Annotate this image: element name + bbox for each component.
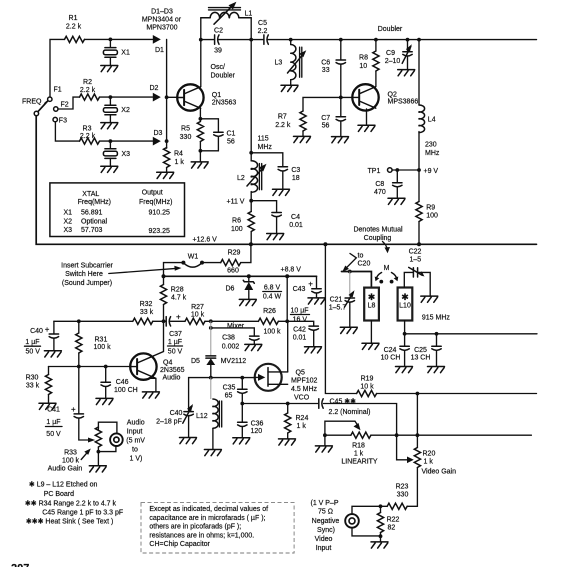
svg-text:+11 V: +11 V xyxy=(227,198,245,205)
wire +8.8V node xyxy=(162,274,317,278)
resistor R3 xyxy=(80,126,100,145)
capacitor C22 variable xyxy=(404,249,430,297)
svg-text:100 CH: 100 CH xyxy=(114,387,138,394)
svg-text:R30: R30 xyxy=(26,375,39,382)
label 115 MHz xyxy=(258,136,273,152)
capacitor C38 xyxy=(209,326,259,351)
svg-text:33 k: 33 k xyxy=(140,309,154,316)
diode D1 xyxy=(153,35,164,55)
arrow variable L2 xyxy=(247,164,267,186)
svg-text:C6: C6 xyxy=(321,60,330,67)
svg-text:1 V): 1 V) xyxy=(130,456,143,463)
note asterisk footnotes xyxy=(25,481,123,526)
svg-text:+8.8 V: +8.8 V xyxy=(281,267,302,274)
wire F2 to R2 xyxy=(58,97,80,109)
svg-text:L12: L12 xyxy=(196,413,208,420)
transistor Q4 xyxy=(130,353,184,381)
svg-text:1 k: 1 k xyxy=(175,159,185,166)
svg-text:50 V: 50 V xyxy=(168,349,183,356)
label to C20 xyxy=(342,253,370,272)
svg-text:Audio: Audio xyxy=(127,420,145,427)
svg-text:C37: C37 xyxy=(169,331,182,338)
svg-text:100 k: 100 k xyxy=(62,457,80,464)
svg-text:D6: D6 xyxy=(226,286,235,293)
svg-text:2.2 k: 2.2 k xyxy=(66,24,82,31)
svg-text:207: 207 xyxy=(11,563,29,567)
svg-text:R31: R31 xyxy=(95,336,108,343)
svg-text:0.01: 0.01 xyxy=(293,335,307,342)
resistor R7 xyxy=(275,97,341,136)
svg-text:L8: L8 xyxy=(368,303,376,310)
node F3 xyxy=(53,117,67,124)
svg-text:2.2 k: 2.2 k xyxy=(80,133,96,140)
resistor R23 xyxy=(387,484,417,510)
capacitor C35 xyxy=(223,378,247,404)
wire L4 column top xyxy=(418,40,420,105)
ground under L8 xyxy=(362,321,379,350)
ground under C21 xyxy=(340,327,357,333)
svg-text:R4: R4 xyxy=(174,151,183,158)
svg-text:10: 10 xyxy=(359,63,367,70)
svg-text:1 k: 1 k xyxy=(354,451,364,458)
svg-text:Freq(MHz): Freq(MHz) xyxy=(139,199,172,206)
arrow C41 to R33 wiper xyxy=(88,438,95,443)
resistor R8 xyxy=(359,40,379,87)
inductor L8 shielded xyxy=(364,288,379,321)
svg-text:R23: R23 xyxy=(396,484,409,491)
svg-text:39: 39 xyxy=(214,48,222,55)
capacitor C43 xyxy=(287,276,321,323)
svg-text:L1: L1 xyxy=(245,11,253,18)
svg-text:C42: C42 xyxy=(293,327,306,334)
svg-text:C22: C22 xyxy=(409,249,422,256)
svg-text:MV2112: MV2112 xyxy=(221,358,247,365)
svg-text:D2: D2 xyxy=(150,85,159,92)
transistor Q1 xyxy=(177,84,236,110)
svg-text:56: 56 xyxy=(227,139,235,146)
ground under C22 xyxy=(421,296,438,302)
label D1-D3 part numbers xyxy=(142,9,182,32)
transistor Q5 JFET xyxy=(255,364,318,402)
wire Q4 base node xyxy=(49,365,132,369)
svg-text:4.5 MHz: 4.5 MHz xyxy=(291,386,318,393)
svg-text:4.7 k: 4.7 k xyxy=(171,295,187,302)
svg-text:others are in picofarads (pF ): others are in picofarads (pF ); xyxy=(149,524,241,531)
svg-text:1 k: 1 k xyxy=(297,423,307,430)
svg-text:1–5.7: 1–5.7 xyxy=(329,305,347,312)
capacitor C42 xyxy=(287,321,318,346)
svg-text:X2: X2 xyxy=(64,218,73,225)
svg-text:915 MHz: 915 MHz xyxy=(422,315,451,322)
capacitor C3 xyxy=(251,153,300,189)
ground under R22 xyxy=(371,542,388,548)
svg-text:470: 470 xyxy=(374,189,386,196)
capacitor C41 xyxy=(46,367,89,441)
svg-text:100 k: 100 k xyxy=(94,344,112,351)
ground under C36 xyxy=(233,438,250,444)
svg-text:2.2 k: 2.2 k xyxy=(275,122,291,129)
svg-text:Q1: Q1 xyxy=(212,92,221,99)
svg-text:(5 mV: (5 mV xyxy=(126,438,145,445)
svg-text:Audio Gain: Audio Gain xyxy=(48,466,83,473)
wire R2 to D2 xyxy=(100,95,153,99)
ground under X3 xyxy=(101,166,118,172)
svg-text:C25: C25 xyxy=(414,347,427,354)
svg-text:✱: ✱ xyxy=(368,292,376,302)
resistor R19 xyxy=(357,376,377,397)
svg-text:R5: R5 xyxy=(181,126,190,133)
svg-text:16 V: 16 V xyxy=(293,317,308,324)
svg-text:Input: Input xyxy=(127,429,143,436)
svg-text:TP1: TP1 xyxy=(368,168,381,175)
svg-text:C46: C46 xyxy=(116,379,129,386)
svg-text:R6: R6 xyxy=(232,218,241,225)
node F2 xyxy=(54,102,69,112)
svg-text:Denotes Mutual: Denotes Mutual xyxy=(353,227,402,234)
wire Q4 collector xyxy=(154,321,164,356)
svg-text:R9: R9 xyxy=(426,205,435,212)
capacitor C2 xyxy=(201,28,251,55)
svg-text:+: + xyxy=(308,279,313,288)
svg-text:F2: F2 xyxy=(61,102,69,109)
ground under C25 xyxy=(428,367,445,373)
svg-text:Doubler: Doubler xyxy=(211,73,236,80)
wire F1 to R1 xyxy=(50,39,65,97)
wire rail down to R29 xyxy=(241,244,251,262)
svg-text:330: 330 xyxy=(397,492,409,499)
svg-text:R26: R26 xyxy=(263,308,276,315)
note units box xyxy=(141,503,294,553)
resistor R5 xyxy=(180,122,204,153)
ground under C43 xyxy=(308,298,325,304)
svg-text:18: 18 xyxy=(292,175,300,182)
svg-text:C20: C20 xyxy=(358,261,371,268)
svg-text:C40: C40 xyxy=(30,328,43,335)
svg-text:1–5: 1–5 xyxy=(409,257,421,264)
ground under C40 variable xyxy=(180,438,197,444)
wire L10 bottom 915 line xyxy=(403,321,537,336)
label Denotes Mutual Coupling xyxy=(353,227,402,254)
wire R18 linearity line xyxy=(323,433,531,437)
svg-text:R28: R28 xyxy=(171,287,184,294)
transistor Q2 xyxy=(352,84,418,110)
arrow variable L1 xyxy=(214,2,236,24)
svg-text:C43: C43 xyxy=(293,286,306,293)
resistor R24 xyxy=(285,404,309,439)
ground under R5 xyxy=(191,151,208,168)
svg-text:R20: R20 xyxy=(423,451,436,458)
svg-text:resistances are in ohms; k=1,0: resistances are in ohms; k=1,000. xyxy=(149,532,254,539)
svg-text:10 CH: 10 CH xyxy=(381,355,401,362)
wire Q1 collector to tank xyxy=(199,18,203,87)
inductor L3 xyxy=(275,40,302,86)
ground under X1 xyxy=(101,66,118,72)
ground under C3 xyxy=(273,189,290,195)
label Insert Subcarrier Switch Here (Sound Jumper) xyxy=(61,263,113,288)
svg-text:W1: W1 xyxy=(188,254,199,261)
capacitor C24 xyxy=(381,334,410,367)
svg-text:C4: C4 xyxy=(291,214,300,221)
inductor L12 xyxy=(196,378,222,450)
wire audio mixer line xyxy=(54,319,289,323)
resistor R9 xyxy=(416,202,438,245)
svg-text:Q5: Q5 xyxy=(296,370,305,377)
svg-text:MPN3700: MPN3700 xyxy=(146,25,177,32)
svg-text:2–10: 2–10 xyxy=(385,58,401,65)
ground under C9 xyxy=(398,70,415,76)
capacitor C21 variable xyxy=(329,272,355,328)
svg-text:910.25: 910.25 xyxy=(149,210,171,217)
wire Q1 base xyxy=(167,96,178,98)
wire +11V node xyxy=(227,192,254,212)
svg-text:CH=Chip Capacitor: CH=Chip Capacitor xyxy=(149,541,210,548)
resistor R26 xyxy=(258,308,281,336)
svg-text:R8: R8 xyxy=(359,55,368,62)
ground under Q4 emitter xyxy=(142,392,159,398)
ground under C4 xyxy=(267,234,284,240)
wire L8 tank top xyxy=(342,270,372,288)
wire R3 to D3 xyxy=(100,139,153,143)
svg-text:Insert Subcarrier: Insert Subcarrier xyxy=(61,263,113,270)
svg-text:6.8 V: 6.8 V xyxy=(264,285,281,292)
svg-text:923.25: 923.25 xyxy=(149,228,171,235)
svg-text:C24: C24 xyxy=(384,347,397,354)
capacitor C1 xyxy=(200,119,235,151)
svg-text:120: 120 xyxy=(251,428,263,435)
ground under C7 xyxy=(332,137,349,143)
wire video node xyxy=(352,504,387,514)
wire top rail to doubler xyxy=(289,38,537,42)
wire R1 to D1 xyxy=(85,38,153,42)
svg-text:Optional: Optional xyxy=(81,218,108,225)
svg-text:C2: C2 xyxy=(214,28,223,35)
ground under C24 xyxy=(396,367,413,373)
svg-text:50 V: 50 V xyxy=(25,349,40,356)
resistor R4 xyxy=(164,148,185,173)
wire +12.6 V rail xyxy=(36,116,536,247)
wire tank right leg xyxy=(249,18,253,153)
svg-text:100: 100 xyxy=(426,213,438,220)
svg-text:1 k: 1 k xyxy=(424,459,434,466)
capacitor C5 xyxy=(251,20,289,44)
svg-text:Osc/: Osc/ xyxy=(211,64,225,71)
svg-text:L4: L4 xyxy=(428,117,436,124)
svg-text:660: 660 xyxy=(227,268,239,275)
svg-text:Freq(MHz): Freq(MHz) xyxy=(78,199,111,206)
wire VCO tank line xyxy=(189,376,255,380)
svg-text:C45 Range 1 pF to 3.3 pF: C45 Range 1 pF to 3.3 pF xyxy=(42,510,123,517)
svg-text:0.01: 0.01 xyxy=(289,222,303,229)
svg-text:Video Gain: Video Gain xyxy=(422,469,457,476)
resistor R28 xyxy=(160,276,186,321)
capacitor C40 input coupling xyxy=(25,321,59,355)
inductor L4 xyxy=(419,105,436,133)
svg-text:C21: C21 xyxy=(330,297,343,304)
svg-text:Q2: Q2 xyxy=(388,92,397,99)
capacitor C40 variable trimmer xyxy=(156,378,193,438)
svg-text:D3: D3 xyxy=(154,130,163,137)
resistor R27 xyxy=(185,304,205,324)
svg-text:C8: C8 xyxy=(375,181,384,188)
svg-text:R24: R24 xyxy=(296,415,309,422)
svg-text:✱ L9 – L12 Etched on: ✱ L9 – L12 Etched on xyxy=(29,481,98,489)
svg-text:MPS3866: MPS3866 xyxy=(388,99,419,106)
resistor R6 xyxy=(231,212,254,245)
svg-text:to: to xyxy=(132,447,138,454)
varactor D5 xyxy=(191,321,246,377)
svg-text:Sync): Sync) xyxy=(317,527,335,534)
svg-text:+9 V: +9 V xyxy=(424,168,439,175)
leader arrow to W1 xyxy=(109,266,182,274)
resistor R32 xyxy=(133,301,154,324)
svg-text:C40: C40 xyxy=(170,410,183,417)
ground under X2 xyxy=(101,123,118,129)
svg-text:MHz: MHz xyxy=(258,144,273,151)
ground under C8 xyxy=(388,198,405,204)
svg-text:MPN3404 or: MPN3404 or xyxy=(142,17,182,24)
resistor R2 xyxy=(80,79,100,100)
wire Q5 source line xyxy=(240,402,396,436)
wire diode bus vertical xyxy=(165,39,169,148)
capacitor C36 xyxy=(238,404,264,438)
svg-text:+12.6 V: +12.6 V xyxy=(193,237,218,244)
svg-text:R19: R19 xyxy=(361,376,374,383)
svg-text:1 µF: 1 µF xyxy=(168,339,182,346)
svg-text:FREQ: FREQ xyxy=(22,99,42,106)
svg-text:R22: R22 xyxy=(387,517,400,524)
svg-text:✱: ✱ xyxy=(401,292,409,302)
svg-text:C45 ✱✱: C45 ✱✱ xyxy=(330,397,357,405)
svg-text:D5: D5 xyxy=(191,358,200,365)
svg-text:0.4 W: 0.4 W xyxy=(263,294,282,301)
svg-text:100 k: 100 k xyxy=(263,329,281,336)
resistor R29 xyxy=(221,250,241,275)
svg-text:115: 115 xyxy=(258,136,269,143)
svg-text:R3: R3 xyxy=(83,126,92,133)
svg-text:33: 33 xyxy=(322,67,330,74)
svg-text:F1: F1 xyxy=(54,87,62,94)
svg-text:330: 330 xyxy=(180,134,192,141)
mutual coupling M xyxy=(375,265,399,284)
svg-text:Mixer: Mixer xyxy=(227,323,245,330)
svg-text:Input: Input xyxy=(316,545,332,552)
svg-text:R29: R29 xyxy=(228,250,241,257)
label video input xyxy=(310,500,339,552)
svg-text:56: 56 xyxy=(322,123,330,130)
svg-text:R18: R18 xyxy=(352,443,365,450)
svg-text:X1: X1 xyxy=(64,210,73,217)
svg-text:82: 82 xyxy=(388,525,396,532)
svg-text:R33: R33 xyxy=(64,450,77,457)
svg-text:1 µF: 1 µF xyxy=(25,339,39,346)
svg-text:X3: X3 xyxy=(122,151,131,158)
switch S1 rotary FREQ xyxy=(34,97,52,116)
wire W1 to +8.8 node xyxy=(164,263,184,277)
svg-text:+: + xyxy=(45,325,50,334)
label Audio Input xyxy=(126,420,145,463)
crystal X2 xyxy=(103,97,130,123)
svg-text:XTAL: XTAL xyxy=(82,191,99,198)
svg-text:C3: C3 xyxy=(291,167,300,174)
svg-text:Doubler: Doubler xyxy=(378,26,403,33)
svg-text:to: to xyxy=(358,253,364,260)
svg-text:Negative: Negative xyxy=(312,518,340,525)
svg-text:Output: Output xyxy=(142,190,163,197)
svg-text:50 V: 50 V xyxy=(46,431,61,438)
svg-text:2N3565: 2N3565 xyxy=(160,367,185,374)
svg-text:1 µF: 1 µF xyxy=(46,419,60,426)
ground under R24 xyxy=(279,439,296,445)
wire +8.8 to R26 to drain xyxy=(286,276,288,321)
svg-text:Q4: Q4 xyxy=(163,360,172,367)
svg-text:L10: L10 xyxy=(399,303,411,310)
inductor L2 xyxy=(237,161,262,192)
svg-text:57.703: 57.703 xyxy=(81,227,103,234)
svg-text:(Sound Jumper): (Sound Jumper) xyxy=(62,280,112,287)
svg-text:C9: C9 xyxy=(386,50,395,57)
ground under C38 xyxy=(245,344,262,350)
crystal X1 xyxy=(103,39,130,65)
svg-text:+: + xyxy=(176,313,181,322)
capacitor C37 xyxy=(166,313,182,356)
svg-text:0.002: 0.002 xyxy=(222,344,240,351)
test point TP1 xyxy=(368,168,420,175)
svg-text:75 Ω: 75 Ω xyxy=(318,509,333,516)
capacitor C7 xyxy=(321,96,345,137)
svg-text:R27: R27 xyxy=(191,304,204,311)
svg-text:C1: C1 xyxy=(227,131,236,138)
svg-text:R1: R1 xyxy=(69,15,78,22)
label Audio Gain xyxy=(48,449,91,473)
wire L4 to +9V node xyxy=(417,132,421,202)
label 230 MHz xyxy=(425,142,440,158)
ground under D6 xyxy=(239,299,256,305)
crystal X3 xyxy=(103,141,130,166)
svg-text:2N3563: 2N3563 xyxy=(212,100,237,107)
ground under R4 xyxy=(157,172,174,178)
svg-text:13 CH: 13 CH xyxy=(411,355,431,362)
resistor R1 xyxy=(65,15,85,43)
wire 115MHz node xyxy=(249,151,253,161)
svg-text:M: M xyxy=(384,265,390,272)
wire F3 to R3 xyxy=(55,122,79,141)
svg-text:Switch Here: Switch Here xyxy=(65,271,103,278)
svg-text:capacitance are in microfarads: capacitance are in microfarads ( µF ); xyxy=(149,515,265,522)
svg-text:C5: C5 xyxy=(258,20,267,27)
svg-text:Except as indicated, decimal v: Except as indicated, decimal values of xyxy=(149,506,268,513)
wire R19 node right xyxy=(377,392,537,396)
capacitor C46 xyxy=(101,367,138,399)
svg-text:(1 V P–P: (1 V P–P xyxy=(310,500,338,507)
svg-text:C35: C35 xyxy=(223,385,236,392)
svg-text:C7: C7 xyxy=(321,115,330,122)
wire R19 node to R18 node xyxy=(416,394,418,436)
svg-text:65: 65 xyxy=(225,393,233,400)
label Osc/Doubler xyxy=(211,64,236,80)
svg-text:230: 230 xyxy=(425,142,437,149)
capacitor C8 xyxy=(374,170,402,198)
resistor R22 xyxy=(377,506,399,542)
ground under L12 xyxy=(204,450,221,456)
svg-text:Video: Video xyxy=(315,536,333,543)
svg-text:C38: C38 xyxy=(222,335,235,342)
svg-text:R2: R2 xyxy=(83,79,92,86)
svg-text:PC Board: PC Board xyxy=(44,491,74,498)
svg-text:✱✱ R34 Range 2.2 k to 4.7 k: ✱✱ R34 Range 2.2 k to 4.7 k xyxy=(25,500,117,508)
connector video input jack xyxy=(345,514,380,536)
label 6.8V 0.4W rating xyxy=(263,285,282,301)
svg-text:X3: X3 xyxy=(64,227,73,234)
